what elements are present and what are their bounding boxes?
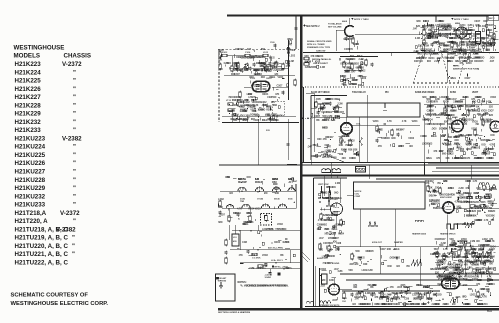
svg-text:H21T218,A: H21T218,A [15, 210, 47, 217]
svg-text:2.2M: 2.2M [462, 36, 467, 38]
svg-text:IOK: IOK [365, 304, 369, 306]
svg-text:C3O7: C3O7 [323, 243, 330, 245]
sec2 long wire [355, 34, 438, 36]
svg-text:2.2M: 2.2M [365, 293, 370, 295]
divider small part [356, 167, 366, 173]
svg-text:C2I8: C2I8 [225, 177, 231, 179]
svg-text:.OO5: .OO5 [450, 111, 456, 113]
svg-text:I5K: I5K [370, 287, 374, 289]
sec2 tube wires [349, 18, 351, 25]
svg-text:R3II: R3II [473, 34, 478, 36]
svg-text:C2I8: C2I8 [338, 271, 344, 273]
vert wire 367 [367, 95, 369, 163]
svg-text:L3O2: L3O2 [458, 34, 464, 36]
svg-text:IOO: IOO [320, 109, 324, 111]
cap mid [286, 143, 289, 145]
svg-text:33O: 33O [261, 77, 266, 79]
svg-text:V2O3: V2O3 [488, 201, 495, 203]
svg-text:4.7K: 4.7K [259, 65, 264, 68]
svg-text:L3O2: L3O2 [470, 295, 476, 297]
svg-text:V2O3: V2O3 [373, 121, 380, 123]
svg-text:R3II: R3II [482, 43, 487, 45]
svg-text:.OO5: .OO5 [431, 129, 437, 131]
svg-text:.OO5: .OO5 [436, 58, 442, 60]
svg-text:WESTINGHOUSE: WESTINGHOUSE [14, 44, 65, 51]
left video cluster parts [315, 102, 317, 107]
svg-text:6CB6: 6CB6 [450, 92, 457, 94]
svg-text:33O: 33O [485, 289, 490, 291]
svg-text:IOK: IOK [332, 187, 336, 189]
rf resistor chain 1 [423, 30, 425, 35]
svg-text:68O: 68O [457, 256, 462, 258]
svg-text:R3II: R3II [236, 97, 241, 99]
svg-text:R3II: R3II [449, 38, 454, 40]
svg-text:R2O4: R2O4 [262, 93, 269, 96]
hold control cluster [427, 186, 429, 191]
svg-text:R2O4: R2O4 [274, 241, 281, 244]
svg-text:C126: C126 [270, 42, 275, 44]
svg-text:": " [73, 202, 76, 209]
svg-text:IOO: IOO [480, 158, 484, 160]
square wave glyph [368, 222, 378, 226]
svg-text:IOO: IOO [231, 74, 235, 76]
bottom border thick [218, 308, 499, 310]
bus AGC [230, 249, 302, 251]
svg-text:IOO: IOO [481, 144, 485, 146]
svg-text:56O: 56O [434, 249, 439, 251]
speaker scallops [320, 301, 331, 304]
svg-text:82O: 82O [441, 136, 446, 138]
svg-text:H21TU221, A, B, C: H21TU221, A, B, C [15, 251, 69, 258]
svg-text:C2I8: C2I8 [420, 136, 426, 138]
svg-text:IMEG: IMEG [430, 269, 436, 271]
hump baseline [477, 188, 497, 190]
svg-text:": " [73, 193, 76, 200]
svg-text:L3O2: L3O2 [241, 58, 247, 60]
svg-text:C3O7: C3O7 [269, 120, 276, 122]
svg-text:": " [73, 102, 76, 109]
svg-text:68O: 68O [282, 229, 287, 231]
resistor box RA [222, 54, 227, 56]
svg-text:2.2M: 2.2M [466, 107, 471, 109]
svg-text:82O: 82O [433, 43, 438, 45]
resistor R112 [287, 48, 289, 53]
svg-text:IMEG: IMEG [455, 36, 461, 38]
svg-text:C2I8: C2I8 [430, 254, 436, 256]
svg-text:IOK: IOK [439, 195, 443, 197]
svg-text:IMEG: IMEG [321, 224, 327, 226]
svg-text:R3II: R3II [331, 256, 336, 258]
svg-text:C2I8: C2I8 [453, 265, 459, 267]
svg-text:2.2M: 2.2M [368, 270, 373, 272]
svg-text:R3II: R3II [363, 264, 368, 266]
svg-text:56O: 56O [450, 239, 455, 241]
sweep hline dots [379, 246, 381, 248]
svg-text:47K: 47K [326, 186, 331, 189]
svg-text:56O: 56O [431, 204, 436, 206]
svg-text:H21KU229: H21KU229 [15, 185, 46, 192]
dotted section line [302, 86, 499, 88]
svg-text:C3O7: C3O7 [412, 295, 419, 297]
wire drop column [235, 225, 237, 234]
svg-text:I5K: I5K [345, 145, 349, 147]
svg-text:56O: 56O [258, 74, 263, 76]
svg-text:47K: 47K [390, 286, 395, 289]
svg-text:H21KU233: H21KU233 [15, 202, 46, 209]
svg-text:V2O3: V2O3 [471, 129, 478, 131]
svg-text:C2I8: C2I8 [381, 138, 387, 140]
svg-text:56-D: 56-D [487, 311, 492, 313]
svg-text:33O: 33O [442, 52, 447, 54]
svg-text:4.5MC SOUND: 4.5MC SOUND [325, 262, 340, 265]
svg-text:IMEG: IMEG [327, 156, 333, 158]
svg-text:IOK: IOK [352, 158, 356, 160]
svg-text:47K: 47K [353, 284, 358, 287]
wire tube right [272, 86, 288, 88]
svg-text:47K: 47K [443, 180, 448, 183]
svg-text:IMEG: IMEG [448, 151, 454, 153]
IF lower verticals [231, 110, 233, 123]
svg-text:47K: 47K [476, 283, 481, 286]
sec boundary vline [310, 150, 312, 165]
svg-text:4.7K: 4.7K [442, 142, 447, 145]
tube V301 [341, 123, 352, 134]
svg-text:IMEG: IMEG [431, 136, 437, 138]
svg-text:.O47: .O47 [422, 57, 428, 60]
svg-text:33O: 33O [486, 198, 491, 200]
svg-text:68O: 68O [416, 21, 421, 23]
below tube parts [340, 138, 342, 143]
svg-text:68O: 68O [360, 68, 365, 70]
svg-text:82O: 82O [478, 254, 483, 256]
black square marker [278, 273, 281, 276]
dashed diag 2 [436, 33, 450, 83]
svg-text:L3O2: L3O2 [289, 55, 295, 57]
svg-text:4.7K: 4.7K [482, 197, 487, 200]
svg-text:V2O3: V2O3 [487, 43, 494, 45]
svg-text:C2I8: C2I8 [425, 124, 431, 126]
svg-text:I2O: I2O [409, 146, 413, 148]
svg-text:56O: 56O [488, 36, 493, 38]
tuner resistor Ra [228, 216, 230, 221]
svg-text:V-2382: V-2382 [62, 135, 82, 142]
svg-text:C2I8: C2I8 [427, 25, 433, 27]
svg-text:STANDARD COIL TYPE: STANDARD COIL TYPE [307, 46, 331, 49]
svg-text:R3II: R3II [336, 224, 341, 226]
svg-text:47K: 47K [450, 256, 455, 259]
svg-text:H21KU228: H21KU228 [15, 177, 46, 184]
svg-text:33O: 33O [358, 85, 363, 87]
svg-text:C2I8: C2I8 [480, 247, 486, 249]
svg-text:.OO5: .OO5 [489, 57, 495, 59]
svg-text:68O: 68O [448, 137, 453, 139]
svg-text:C3O7: C3O7 [474, 21, 481, 23]
svg-text:H21KU226: H21KU226 [15, 160, 46, 167]
svg-text:I5K: I5K [433, 295, 437, 297]
svg-text:33O: 33O [330, 220, 335, 222]
svg-text:2.2M: 2.2M [289, 61, 294, 63]
svg-text:33O: 33O [414, 61, 419, 63]
dashed bottom segment [413, 82, 480, 84]
bottom row parts [361, 292, 363, 297]
svg-text:I5K: I5K [274, 120, 278, 122]
svg-text:V-2372: V-2372 [60, 210, 80, 217]
svg-text:I2O: I2O [439, 52, 443, 54]
svg-text:R1O2: R1O2 [222, 52, 228, 54]
svg-text:I5K: I5K [476, 265, 480, 267]
svg-text:L1O: L1O [233, 237, 237, 239]
svg-text:33O: 33O [447, 99, 452, 101]
bottom IF bus [222, 122, 299, 124]
svg-text:V2O3: V2O3 [449, 129, 456, 131]
svg-text:IOK: IOK [459, 262, 463, 264]
svg-text:IOK: IOK [481, 295, 485, 297]
bus 250 [248, 268, 302, 270]
bus LINE B+ arrowdot [250, 230, 252, 232]
svg-text:L1O3: L1O3 [263, 52, 269, 54]
wire down a [257, 126, 259, 165]
svg-text:.OO5: .OO5 [218, 50, 224, 52]
svg-text:": " [73, 144, 76, 151]
svg-text:47K: 47K [487, 101, 492, 104]
svg-text:SPEAKER SOCKETS: SPEAKER SOCKETS [319, 304, 340, 307]
svg-text:R2O4: R2O4 [463, 96, 470, 99]
vert wire 359 [358, 117, 360, 163]
svg-text:R3II: R3II [358, 258, 363, 260]
svg-text:R2O4: R2O4 [341, 148, 348, 151]
svg-text:NOTE 1 THRU: NOTE 1 THRU [454, 19, 469, 21]
svg-text:82O: 82O [470, 224, 475, 226]
heater square wave [447, 224, 458, 229]
svg-text:H21K224: H21K224 [15, 69, 42, 76]
IF extra row parts [237, 63, 239, 68]
bus line 2 [340, 56, 378, 58]
svg-text:L3O2: L3O2 [360, 71, 366, 73]
svg-text:H21K229: H21K229 [15, 111, 42, 118]
svg-text:2.2M: 2.2M [331, 234, 336, 236]
sec3 box top [306, 92, 315, 94]
wire cap chain [265, 263, 267, 264]
svg-text:IOK: IOK [467, 243, 471, 245]
svg-text:47K: 47K [436, 157, 441, 160]
svg-text:33O: 33O [441, 124, 446, 126]
svg-text:V2O3: V2O3 [490, 97, 497, 99]
svg-text:R3II: R3II [335, 112, 340, 114]
svg-text:R2O4: R2O4 [427, 119, 434, 122]
svg-text:I5K: I5K [355, 295, 359, 297]
svg-text:56O: 56O [487, 279, 492, 281]
svg-text:IOO: IOO [461, 42, 465, 44]
saw waveform 1 [411, 260, 422, 266]
box black square [216, 277, 218, 279]
svg-text:R3II: R3II [456, 124, 461, 126]
svg-text:.O47: .O47 [453, 142, 459, 145]
svg-text:": " [72, 243, 75, 250]
sweep wire r [464, 247, 466, 274]
svg-text:68O: 68O [356, 68, 361, 70]
mid cluster parts [343, 62, 345, 67]
resistor box RC [263, 54, 268, 56]
svg-text:82O: 82O [477, 304, 482, 306]
svg-text:IMEG: IMEG [485, 195, 491, 197]
svg-text:2.2M: 2.2M [480, 289, 485, 291]
svg-text:IMEG: IMEG [406, 304, 412, 306]
svg-text:AMERICA AFT POS FUSE: AMERICA AFT POS FUSE [453, 68, 479, 71]
tall coil form [476, 32, 481, 44]
capacitor C105 [268, 62, 271, 64]
svg-text:MODELS: MODELS [14, 53, 40, 60]
svg-text:.O47: .O47 [319, 237, 325, 240]
svg-text:IMEG: IMEG [396, 130, 402, 132]
svg-text:68O: 68O [232, 100, 237, 102]
see note 2 dot [304, 25, 306, 27]
svg-text:R3II: R3II [460, 243, 465, 245]
sound box top [314, 177, 348, 179]
svg-text:1O/45O: 1O/45O [265, 276, 272, 279]
svg-text:SCHEMATIC COURTESY OF: SCHEMATIC COURTESY OF [11, 293, 89, 299]
svg-text:33O: 33O [326, 99, 331, 101]
svg-text:H21K227: H21K227 [15, 94, 42, 101]
svg-text:IOO: IOO [473, 36, 477, 38]
wire row2 [224, 74, 295, 76]
svg-text:IMEG: IMEG [269, 77, 275, 79]
svg-text:4.7K: 4.7K [318, 219, 323, 222]
svg-text:I2O: I2O [476, 241, 480, 243]
svg-text:IOO: IOO [422, 304, 426, 306]
svg-text:I5K: I5K [437, 183, 441, 185]
svg-text:I5K: I5K [377, 304, 381, 306]
svg-text:33O: 33O [342, 158, 347, 160]
svg-text:C3O7: C3O7 [427, 107, 434, 109]
top border line [227, 15, 499, 17]
svg-text:4O5: 4O5 [233, 240, 237, 243]
sec boundary arrow wire [330, 157, 344, 163]
tuner coil L7 [261, 204, 269, 208]
svg-text:47K: 47K [378, 145, 383, 148]
svg-text:L3O2: L3O2 [386, 295, 392, 297]
svg-text:IOO: IOO [427, 61, 431, 63]
svg-text:I5K: I5K [460, 39, 464, 41]
svg-text:68O: 68O [218, 222, 223, 224]
svg-text:.O47: .O47 [441, 262, 447, 265]
svg-text:H. B+ 25O V: H. B+ 25O V [271, 260, 283, 262]
below tube cluster boxes [228, 103, 233, 105]
svg-text:R3II: R3II [219, 207, 224, 209]
svg-text:.OO5: .OO5 [428, 111, 434, 113]
mid horizontal divider [219, 164, 499, 166]
svg-text:IOO: IOO [477, 211, 481, 213]
svg-text:L3O2: L3O2 [247, 94, 253, 96]
svg-text:I2O: I2O [452, 304, 456, 306]
svg-text:R3II: R3II [317, 139, 322, 141]
left edge tuner parts [219, 201, 221, 206]
svg-text:IMEG: IMEG [335, 99, 341, 101]
svg-text:68O: 68O [450, 58, 455, 60]
tube V303 edge [490, 121, 499, 132]
svg-text:R2O4: R2O4 [324, 117, 331, 120]
svg-text:4.7K: 4.7K [332, 117, 337, 120]
svg-text:2.2M: 2.2M [415, 38, 420, 40]
svg-text:IMEG: IMEG [442, 256, 448, 258]
svg-text:I5K: I5K [286, 268, 290, 270]
svg-text:L3O2: L3O2 [348, 59, 354, 61]
svg-text:C3O7: C3O7 [472, 279, 479, 281]
tuner coil L1 [238, 187, 246, 191]
svg-text:47K: 47K [244, 69, 249, 72]
svg-text:L3O2: L3O2 [322, 256, 328, 258]
svg-text:4.7K: 4.7K [470, 262, 475, 265]
svg-text:47K: 47K [454, 136, 459, 139]
svg-text:2.2M: 2.2M [358, 59, 363, 61]
svg-text:C3O7: C3O7 [435, 239, 442, 241]
svg-text:VERT: VERT [472, 92, 479, 94]
svg-text:V-2372: V-2372 [62, 61, 82, 68]
svg-text:L3O2: L3O2 [459, 51, 465, 53]
svg-text:47K: 47K [457, 269, 462, 272]
svg-text:82O: 82O [462, 297, 467, 299]
wire sec3 upper right [424, 103, 499, 105]
svg-text:.OO5: .OO5 [399, 146, 405, 148]
IF row2 extra parts [235, 64, 237, 69]
rf resistor chain 2 [431, 32, 433, 37]
tuner rail1 dots [241, 191, 243, 193]
svg-text:L3O2: L3O2 [423, 21, 429, 23]
sweep mid wires [359, 209, 361, 247]
svg-text:R3II: R3II [387, 266, 392, 268]
svg-text:IMEG: IMEG [243, 224, 249, 226]
svg-text:": " [73, 152, 76, 159]
svg-text:2.2M: 2.2M [424, 46, 429, 48]
svg-text:IOO: IOO [315, 62, 319, 64]
svg-text:C3O7: C3O7 [251, 86, 258, 88]
sec3 right wires [464, 96, 466, 110]
svg-text:I2O: I2O [396, 266, 400, 268]
note1 dot a [352, 18, 354, 20]
wire row1 [227, 55, 245, 57]
svg-text:33O: 33O [418, 46, 423, 48]
svg-text:I5K: I5K [444, 279, 448, 281]
svg-text:": " [73, 218, 76, 225]
junction t1 [257, 119, 259, 126]
svg-text:.OO5: .OO5 [397, 287, 403, 289]
svg-text:47K: 47K [466, 157, 471, 160]
svg-text:V2O3: V2O3 [431, 192, 438, 194]
svg-text:I5K: I5K [416, 285, 420, 287]
sec2 wire drop c [437, 28, 439, 35]
svg-text:6SN7 HORIZ: 6SN7 HORIZ [440, 197, 453, 199]
svg-text:.O47: .O47 [452, 98, 458, 101]
svg-text:V2O3: V2O3 [408, 138, 415, 140]
svg-text:68O: 68O [257, 268, 262, 270]
tuner resistor Rb [249, 216, 251, 221]
sec2 vertical wire r2 [446, 53, 448, 63]
svg-text:68O: 68O [475, 270, 480, 272]
svg-text:.OO5: .OO5 [474, 277, 480, 279]
oval tube V1 12BY7 [252, 81, 270, 91]
svg-text:6AU8 1ST VIDEO: 6AU8 1ST VIDEO [311, 91, 330, 94]
svg-text:4.7K: 4.7K [387, 120, 392, 123]
tuner cap Ca [236, 213, 239, 215]
v402 pins [338, 289, 340, 291]
ground symbol in box [220, 282, 222, 286]
svg-text:IMEG: IMEG [430, 36, 436, 38]
resistor R106 [231, 66, 233, 71]
svg-text:IOK: IOK [446, 158, 450, 160]
svg-text:": " [73, 127, 76, 134]
sec2 wire mid [390, 53, 392, 57]
svg-text:H21KU227: H21KU227 [15, 169, 46, 176]
svg-text:H21T220, A: H21T220, A [15, 218, 49, 225]
